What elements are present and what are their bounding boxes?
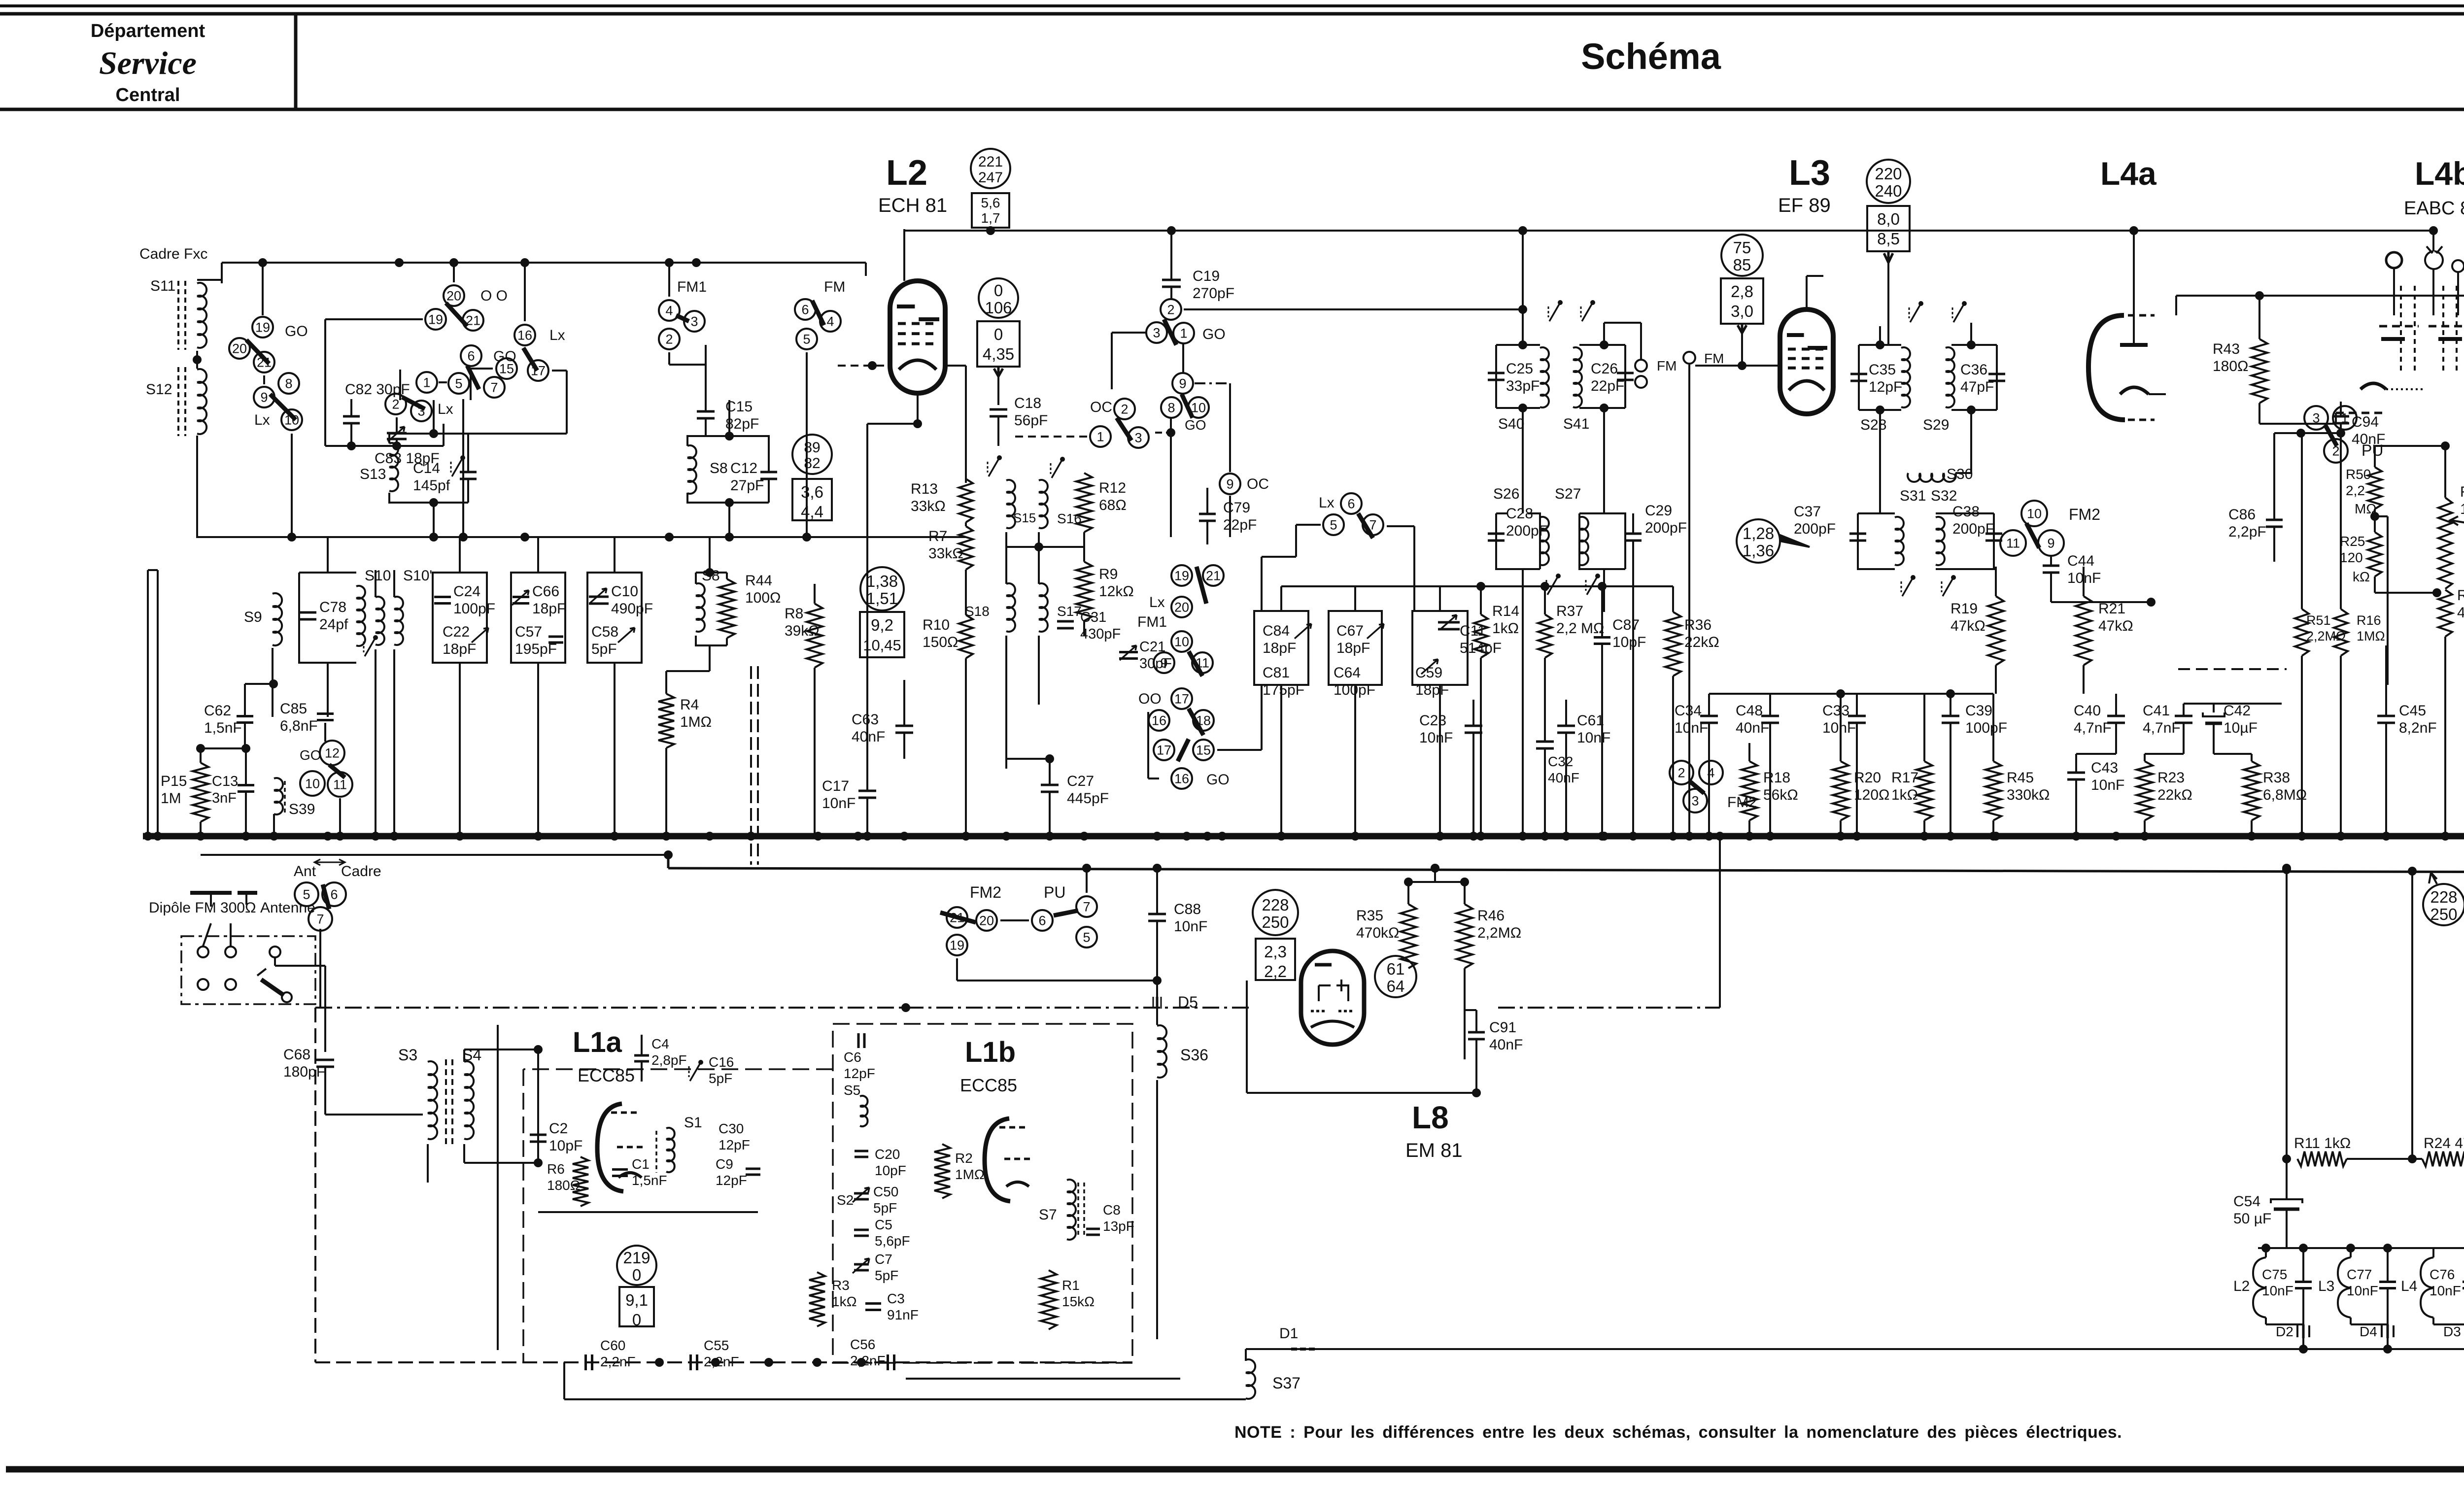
svg-text:C13: C13 (212, 774, 238, 789)
svg-text:6,8nF: 6,8nF (280, 718, 318, 734)
capacitor C91 40nF (1468, 1031, 1485, 1034)
switch pin 9 OC (1220, 474, 1240, 494)
resistor R14 1k (1474, 614, 1488, 658)
svg-text:150Ω: 150Ω (923, 634, 958, 650)
svg-text:C22: C22 (443, 624, 470, 640)
coil S26 (1540, 517, 1549, 565)
switch bar h (1358, 513, 1373, 538)
wire 9b dashdot (1195, 382, 1230, 384)
svg-text:C88: C88 (1174, 901, 1201, 917)
svg-text:C66: C66 (532, 583, 559, 600)
svg-text:17: 17 (1157, 743, 1171, 758)
svg-text:250: 250 (1262, 913, 1289, 931)
svg-text:19: 19 (255, 320, 270, 335)
wire R8 (814, 584, 816, 604)
wire R50 top (2374, 446, 2376, 467)
switch pin 21b (463, 310, 483, 331)
capacitor C27 445pF (1041, 784, 1059, 786)
svg-text:C67: C67 (1336, 623, 1364, 639)
box 9,2/10,45 (860, 612, 904, 657)
svg-text:C79: C79 (1223, 500, 1250, 516)
svg-text:L4: L4 (2401, 1278, 2417, 1294)
wire OC left (1015, 436, 1087, 438)
coil S27 (1579, 517, 1588, 565)
switch pin 16 (514, 325, 535, 345)
svg-text:12pF: 12pF (716, 1173, 747, 1188)
wire L3 grid (1741, 333, 1743, 366)
coil S32 (1936, 517, 1945, 565)
capacitor C39 100pF (1942, 715, 1959, 717)
svg-text:445pF: 445pF (1067, 790, 1109, 807)
wire r11-r24 (2347, 1158, 2422, 1160)
box C78 24pf (299, 573, 356, 663)
switch pin 17e (1154, 740, 1174, 760)
svg-text:R23: R23 (2157, 770, 2185, 786)
wire L3 top (1887, 263, 1889, 345)
svg-text:C64: C64 (1334, 665, 1361, 681)
wire IFT1 sec top (1603, 323, 1605, 345)
resistor R19 47k (1988, 596, 2004, 665)
wire tank2 up (728, 400, 730, 436)
wire L8 bottom loop (1247, 1092, 1476, 1094)
svg-text:GO: GO (1202, 326, 1226, 342)
svg-text:200pF: 200pF (1645, 520, 1687, 536)
svg-text:S1: S1 (684, 1115, 702, 1131)
second bus dots (1082, 864, 1091, 873)
svg-text:C75: C75 (2262, 1267, 2287, 1282)
wire 2f down (668, 352, 670, 365)
svg-text:NOTE : Pour les différences en: NOTE : Pour les différences entre les de… (1234, 1423, 2122, 1442)
svg-text:C63: C63 (852, 711, 879, 728)
top HT rail (904, 230, 2430, 232)
svg-text:C1: C1 (632, 1156, 650, 1172)
svg-text:L1a: L1a (573, 1026, 622, 1058)
wire s36 down (1156, 1080, 1158, 1339)
resistor R37 2,2M (1538, 614, 1552, 658)
svg-text:Lx: Lx (254, 412, 270, 428)
wire FM up (1640, 345, 1642, 360)
svg-text:100pF: 100pF (1965, 720, 2007, 736)
capacitor C35 12pF (1850, 373, 1867, 375)
coil S40 (1540, 347, 1549, 407)
svg-text:2: 2 (392, 397, 399, 412)
heater line from S37 (1246, 1348, 1262, 1350)
svg-text:C68: C68 (283, 1047, 310, 1063)
svg-text:1kΩ: 1kΩ (832, 1294, 857, 1309)
wire L4a net (2176, 295, 2464, 297)
svg-text:17: 17 (1174, 692, 1189, 707)
svg-text:C85: C85 (280, 701, 307, 717)
capacitor C67 18pF / C64 100pF (1329, 611, 1382, 685)
svg-text:18pF: 18pF (1336, 640, 1370, 656)
svg-text:C19: C19 (1193, 268, 1220, 284)
svg-text:22pF: 22pF (1591, 378, 1624, 394)
svg-text:5pF: 5pF (709, 1071, 732, 1086)
wire c68 to coil (325, 1114, 423, 1116)
svg-text:C77: C77 (2347, 1267, 2372, 1282)
svg-text:10nF: 10nF (1174, 918, 1207, 935)
wire R44 down (709, 645, 711, 671)
wire lower bot (1522, 569, 1524, 836)
switch pin 6a (322, 882, 346, 906)
trimmer S29 (1953, 304, 1964, 322)
switch pin 18d (1193, 710, 1214, 731)
svg-text:D2: D2 (2276, 1324, 2293, 1339)
svg-text:R4: R4 (680, 697, 699, 713)
svg-text:C12: C12 (730, 460, 757, 476)
wire L2 khode (917, 393, 919, 424)
svg-text:Lx: Lx (1319, 495, 1335, 511)
svg-text:C38: C38 (1952, 504, 1980, 520)
measure box 5,6/1,7 (972, 193, 1009, 228)
svg-text:Lx: Lx (549, 327, 565, 343)
capacitor C48 40nF (1761, 715, 1779, 717)
svg-text:GO: GO (1206, 772, 1230, 788)
wire dashes top (2178, 668, 2287, 670)
IFT1 secondary box (1579, 345, 1625, 408)
svg-text:10,45: 10,45 (863, 637, 901, 654)
wire S9 (272, 648, 274, 717)
svg-text:11: 11 (2006, 536, 2020, 551)
svg-text:1,28: 1,28 (1743, 524, 1774, 542)
vert 3090 up (1522, 231, 1524, 309)
svg-text:S31: S31 (1900, 488, 1926, 504)
svg-text:3: 3 (690, 314, 698, 329)
svg-text:R19: R19 (1951, 601, 1978, 617)
measure circle 221/247 (971, 149, 1010, 188)
capacitor C82 (343, 415, 360, 418)
svg-text:C17: C17 (822, 778, 849, 794)
svg-text:1MΩ: 1MΩ (680, 714, 712, 730)
resistor R35 470k (1401, 904, 1416, 968)
svg-text:3nF: 3nF (212, 790, 237, 806)
svg-text:R11 1kΩ: R11 1kΩ (2294, 1135, 2351, 1151)
svg-text:C33: C33 (1822, 703, 1849, 719)
svg-text:40nF: 40nF (1548, 770, 1579, 785)
wire 7b down (462, 399, 464, 537)
svg-text:R17: R17 (1891, 770, 1918, 786)
wire 16 up (524, 263, 526, 321)
capacitor C42 10uF (2203, 712, 2224, 716)
capacitor C84 18pF / C81 175pF (1254, 611, 1308, 685)
svg-text:C32: C32 (1548, 754, 1573, 769)
capacitor C88 10nF (1148, 913, 1166, 915)
svg-text:1,36: 1,36 (1743, 541, 1774, 560)
measure box 8,0/8,5 (1867, 206, 1910, 251)
svg-text:S37: S37 (1272, 1374, 1300, 1392)
resistor R18 56k (1742, 761, 1757, 820)
resistor R27p 400k (2438, 590, 2452, 637)
svg-text:56pF: 56pF (1014, 412, 1048, 429)
wire 5h left (1296, 524, 1321, 526)
measure circle 228/250 L8 (1253, 890, 1298, 935)
svg-text:C61: C61 (1577, 712, 1604, 729)
svg-text:C29: C29 (1645, 503, 1672, 519)
svg-text:L8: L8 (1412, 1100, 1449, 1135)
svg-text:6: 6 (1347, 497, 1355, 511)
svg-text:1,5nF: 1,5nF (204, 720, 242, 736)
svg-text:15kΩ: 15kΩ (1062, 1294, 1095, 1309)
svg-text:S29: S29 (1923, 417, 1949, 433)
IFT2 box2 (1951, 345, 1997, 410)
trimmer S28 (1910, 304, 1921, 322)
svg-text:1: 1 (423, 375, 430, 390)
coil S11 core (184, 281, 186, 350)
wire 7r up (1086, 868, 1088, 893)
capacitor C12 (760, 471, 777, 474)
switch pin 21 (254, 352, 274, 372)
L4b plates (2379, 325, 2419, 328)
svg-text:C62: C62 (204, 703, 231, 719)
wire L2 cath col (867, 423, 918, 425)
wire c83 right (443, 424, 445, 446)
switch pin 2 GO (1161, 299, 1181, 320)
svg-text:C6: C6 (844, 1049, 861, 1065)
svg-text:FM: FM (1657, 358, 1677, 373)
wire 15 left (471, 368, 493, 370)
switch bar d4 (1178, 739, 1189, 761)
svg-text:L4b: L4b (2415, 155, 2464, 192)
switch pin 3 GO (1146, 322, 1167, 343)
svg-text:Département: Département (91, 21, 205, 41)
wire 5g down (806, 352, 808, 537)
capacitor C4 2,8pF (634, 1054, 649, 1057)
svg-text:FM2: FM2 (2069, 506, 2100, 523)
svg-text:FM2: FM2 (970, 883, 1001, 901)
svg-text:10: 10 (284, 413, 299, 428)
svg-text:22kΩ: 22kΩ (2157, 787, 2192, 803)
svg-text:R25: R25 (2340, 534, 2365, 549)
resistor R12 68 (1076, 473, 1092, 532)
svg-text:C24: C24 (453, 583, 480, 600)
capacitor C33 10nF (1848, 715, 1866, 717)
resistor R46 2,2M (1457, 904, 1472, 968)
svg-text:7: 7 (316, 912, 324, 927)
svg-text:1MΩ: 1MΩ (955, 1167, 985, 1182)
svg-text:0: 0 (632, 1266, 641, 1284)
svg-text:4: 4 (826, 314, 834, 329)
svg-text:470kΩ: 470kΩ (1356, 925, 1399, 941)
measure box 2,8/3,0 (1721, 278, 1763, 324)
svg-text:Ant: Ant (294, 863, 316, 880)
switch pin 6b (461, 345, 481, 366)
svg-text:8,5: 8,5 (1877, 230, 1900, 248)
capacitor C54 50uF (2271, 1199, 2302, 1203)
svg-text:20: 20 (446, 289, 461, 304)
wire choke l2 (2265, 1248, 2267, 1257)
wire trio bottoms (1280, 685, 1282, 836)
wire IFT1 sec bot (1603, 408, 1605, 493)
svg-text:33pF: 33pF (1506, 378, 1540, 394)
resistor R11 1k (2297, 1151, 2347, 1166)
coil S36 (1157, 1025, 1166, 1078)
resistor R25 120k (2368, 532, 2382, 576)
svg-text:40nF: 40nF (1489, 1037, 1523, 1053)
osc wires (1005, 532, 1007, 584)
FM circle L3 (1683, 352, 1695, 364)
svg-text:R27: R27 (2460, 484, 2464, 500)
node R50 R25 (2374, 509, 2376, 532)
svg-text:240: 240 (1875, 182, 1902, 200)
svg-text:12kΩ: 12kΩ (1099, 583, 1134, 600)
svg-text:R43: R43 (2213, 341, 2240, 357)
L4b diode pins (2386, 252, 2402, 268)
svg-text:2,2MΩ: 2,2MΩ (2306, 629, 2346, 643)
svg-text:8,2nF: 8,2nF (2399, 720, 2437, 736)
resistor R9 12k (1076, 562, 1092, 621)
svg-text:9,1: 9,1 (625, 1291, 648, 1309)
trimmer S32b (1943, 577, 1953, 596)
svg-text:19: 19 (1174, 569, 1189, 583)
svg-text:9: 9 (1226, 477, 1233, 492)
svg-text:C91: C91 (1489, 1019, 1516, 1036)
svg-text:8: 8 (1167, 401, 1175, 415)
wire top link c62 (245, 683, 274, 685)
svg-text:L1b: L1b (965, 1036, 1016, 1068)
switch pin 20r (976, 910, 997, 931)
tube L2 ECH81 (890, 281, 945, 393)
capacitor C43 10nF (2067, 772, 2085, 774)
tube L3 EF89 (1780, 309, 1833, 414)
capacitor C87 10pF (1594, 636, 1610, 639)
wire ant to c68 (274, 958, 276, 966)
wire AGC up (1719, 836, 1721, 1008)
capacitor C28 200pF (1488, 533, 1505, 535)
page top border line (0, 4, 2464, 7)
switch pin 4f (659, 300, 680, 321)
svg-text:3: 3 (1153, 326, 1160, 340)
svg-text:C34: C34 (1675, 703, 1702, 719)
svg-text:6: 6 (801, 303, 809, 317)
svg-text:10nF: 10nF (1675, 720, 1708, 736)
box stubs (459, 537, 461, 573)
trimmer S31b (1902, 577, 1913, 596)
measure circle 0/106 (979, 278, 1018, 318)
heater top rail (2258, 1247, 2464, 1249)
arrow L3 box (1884, 251, 1893, 263)
svg-text:S18: S18 (965, 604, 990, 619)
wire R44-R4 link (666, 670, 710, 672)
svg-text:C20: C20 (875, 1147, 900, 1162)
switch bar d3 (1189, 709, 1203, 735)
switch pin 1c (416, 372, 437, 393)
svg-text:C55: C55 (704, 1338, 729, 1353)
svg-text:GO: GO (285, 323, 308, 339)
svg-text:R14: R14 (1492, 603, 1519, 619)
capacitor C63 40nF (895, 725, 913, 727)
svg-text:C25: C25 (1506, 361, 1533, 377)
svg-text:C16: C16 (709, 1054, 734, 1070)
arrow L3 box2 (1738, 324, 1746, 333)
wire 7a down (319, 929, 321, 1008)
svg-text:6: 6 (1038, 914, 1046, 928)
arrow under box (988, 228, 993, 231)
L1 solid bottom (906, 1378, 1180, 1380)
capacitor C86 2,2pF (2266, 519, 2283, 521)
circle 1,28/1,36 (1737, 519, 1780, 563)
svg-text:1,38: 1,38 (866, 572, 898, 590)
coil S41 (1573, 347, 1582, 407)
diode D1 (1291, 1348, 1297, 1351)
svg-text:24pf: 24pf (319, 616, 348, 633)
wire OC right (1155, 432, 1171, 434)
svg-text:15: 15 (499, 362, 514, 376)
svg-text:Dipôle FM 300Ω: Dipôle FM 300Ω (149, 900, 256, 916)
wire 19r down (956, 958, 958, 981)
svg-text:9: 9 (1160, 656, 1167, 671)
wire fm2 up (865, 263, 867, 276)
svg-text:R45: R45 (2007, 770, 2034, 786)
svg-text:R50: R50 (2346, 467, 2371, 482)
wire pin3 left (1112, 332, 1146, 334)
main ground bus (143, 833, 2464, 840)
capacitor C44 10nF (2043, 565, 2059, 567)
svg-text:7: 7 (1369, 518, 1376, 533)
svg-text:82pF: 82pF (725, 416, 759, 432)
page top border line 2 (0, 12, 2464, 16)
svg-text:C4: C4 (651, 1036, 669, 1051)
vert 3420 fm (1688, 365, 1690, 836)
svg-text:33kΩ: 33kΩ (928, 545, 963, 562)
circle 89/82 (792, 435, 832, 474)
circle 1,38/1,51 (860, 567, 904, 610)
coil S31 (1895, 517, 1904, 565)
coil S13 (389, 443, 398, 491)
svg-text:S30: S30 (1947, 466, 1973, 482)
svg-text:Lx: Lx (438, 401, 453, 417)
tank box (389, 434, 468, 503)
svg-text:180pF: 180pF (283, 1064, 325, 1080)
wire 10 down (291, 434, 293, 537)
coil S8b + R44 (696, 583, 705, 632)
wire C41 C42 top (2184, 703, 2282, 705)
switch pin 17 (528, 360, 548, 381)
svg-text:R24 470Ω: R24 470Ω (2424, 1135, 2464, 1151)
L1 block dashed bottom bus (315, 1361, 1132, 1363)
svg-text:C57: C57 (515, 624, 542, 640)
wire 16e left (1148, 778, 1159, 779)
svg-text:R20: R20 (1854, 770, 1881, 786)
resistor R50 2,2M (2368, 467, 2382, 509)
wire pin1 down (1182, 343, 1184, 373)
svg-text:OO: OO (1138, 691, 1162, 707)
capacitor C56 2,2nF (887, 1354, 889, 1370)
svg-text:S7: S7 (1039, 1207, 1057, 1223)
rail to diode line (1254, 1348, 2464, 1350)
svg-text:10nF: 10nF (2430, 1283, 2461, 1298)
switch bar GO (1164, 319, 1176, 345)
capacitor C15 (697, 410, 715, 413)
wire R44 up (709, 537, 711, 573)
osc bottom join (1006, 758, 1050, 760)
svg-text:OC: OC (1247, 476, 1269, 492)
choke L4h (2421, 1257, 2433, 1318)
svg-text:L4a: L4a (2100, 155, 2157, 192)
svg-text:20: 20 (232, 341, 247, 356)
tube L8 EM81 (1301, 951, 1364, 1045)
capacitor C37 200pF (1849, 533, 1866, 535)
wire ant links (203, 923, 211, 946)
mid node wires (1709, 693, 1993, 695)
wire b+ vert 4640 (2286, 870, 2288, 1159)
svg-text:Central: Central (116, 85, 180, 105)
svg-text:19: 19 (428, 312, 443, 327)
svg-text:106: 106 (985, 299, 1012, 317)
junction (258, 258, 267, 267)
IFT2 lower box2 (1936, 513, 1994, 569)
left frame rect (148, 570, 158, 833)
svg-text:180Ω: 180Ω (547, 1178, 581, 1193)
